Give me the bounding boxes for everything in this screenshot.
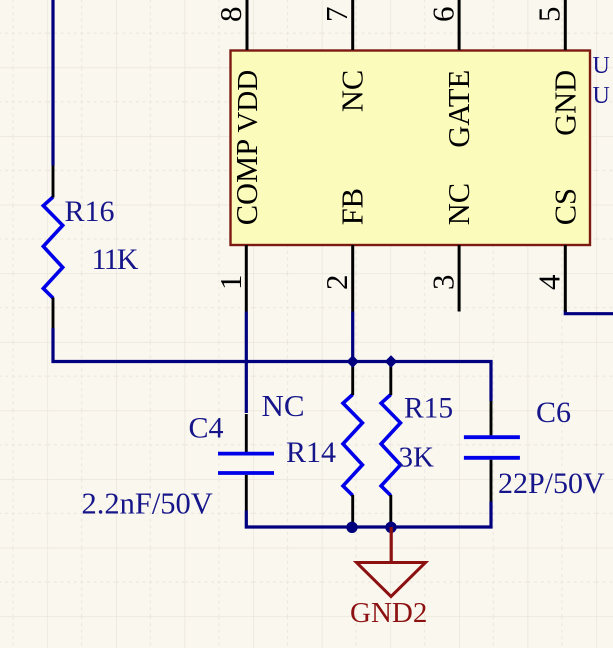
- R14 bottom pin: [351, 495, 354, 527]
- R16 top pin: [52, 166, 55, 198]
- svg-text:NC: NC: [442, 183, 476, 225]
- svg-text:R15: R15: [404, 393, 453, 425]
- capacitor C6 bottom pin: [490, 460, 493, 502]
- svg-text:C6: C6: [536, 396, 571, 429]
- svg-text:5: 5: [532, 7, 567, 23]
- svg-text:FB: FB: [336, 188, 370, 225]
- pin 1: [245, 245, 248, 312]
- pin 7: [351, 0, 354, 50]
- wire pin4 to right edge: [565, 310, 613, 314]
- ground wire GND2: [390, 527, 393, 561]
- svg-text:GND: GND: [549, 70, 583, 136]
- pin 4: [564, 245, 567, 312]
- capacitor C4 top pin: [245, 414, 248, 452]
- svg-text:8: 8: [213, 7, 248, 23]
- junction dot R15/bus: [385, 355, 397, 367]
- svg-text:7: 7: [319, 7, 354, 23]
- resistor R16: [43, 197, 62, 298]
- wire net at left from top: [51, 0, 54, 166]
- pin 8: [246, 0, 249, 50]
- svg-text:22P/50V: 22P/50V: [498, 467, 605, 500]
- svg-text:3K: 3K: [399, 442, 435, 474]
- svg-text:R16: R16: [65, 195, 115, 228]
- R14 top pin: [351, 362, 354, 395]
- R15 bottom pin: [389, 495, 392, 527]
- pin 2: [351, 245, 354, 312]
- svg-text:1: 1: [213, 275, 248, 291]
- capacitor C6 plates: [464, 437, 520, 458]
- svg-text:U: U: [593, 53, 610, 79]
- svg-text:U: U: [593, 83, 610, 109]
- svg-text:GATE: GATE: [442, 70, 476, 148]
- svg-text:C4: C4: [189, 412, 224, 445]
- capacitor C4 plates: [218, 454, 274, 473]
- svg-text:COMP: COMP: [230, 139, 264, 225]
- svg-text:NC: NC: [262, 388, 305, 423]
- svg-text:R14: R14: [286, 436, 336, 469]
- svg-text:GND2: GND2: [350, 597, 427, 629]
- IC U? body: [231, 51, 591, 246]
- svg-text:2: 2: [319, 275, 354, 291]
- pin 6: [458, 0, 461, 50]
- resistor R15: [381, 395, 400, 496]
- resistor R14: [343, 395, 362, 496]
- R16 bottom pin: [52, 298, 55, 329]
- capacitor C6 top pin: [490, 401, 493, 435]
- R15 top pin: [389, 362, 392, 395]
- wire pin2 down: [351, 312, 354, 364]
- wire bottom bus C4-C6: [246, 502, 491, 528]
- junction dot R14/bottom bus: [346, 522, 357, 533]
- wire from R16 bottom, horizontal bus, down to C6: [53, 328, 491, 401]
- pin 5: [564, 0, 567, 50]
- pin 3: [458, 245, 461, 312]
- svg-text:3: 3: [425, 275, 460, 291]
- svg-text:VDD: VDD: [232, 70, 264, 133]
- svg-text:4: 4: [532, 274, 567, 290]
- capacitor C4 bottom pin: [245, 475, 248, 511]
- svg-text:NC: NC: [336, 70, 370, 112]
- svg-text:11K: 11K: [92, 243, 139, 276]
- ground symbol GND2: [357, 563, 426, 597]
- svg-text:6: 6: [425, 7, 460, 23]
- svg-text:CS: CS: [549, 188, 583, 225]
- junction dot pin2/bus: [347, 355, 359, 367]
- svg-text:2.2nF/50V: 2.2nF/50V: [82, 487, 213, 521]
- wire pin1 to C4: [245, 312, 248, 414]
- junction dot R15/bottom bus: [385, 522, 396, 533]
